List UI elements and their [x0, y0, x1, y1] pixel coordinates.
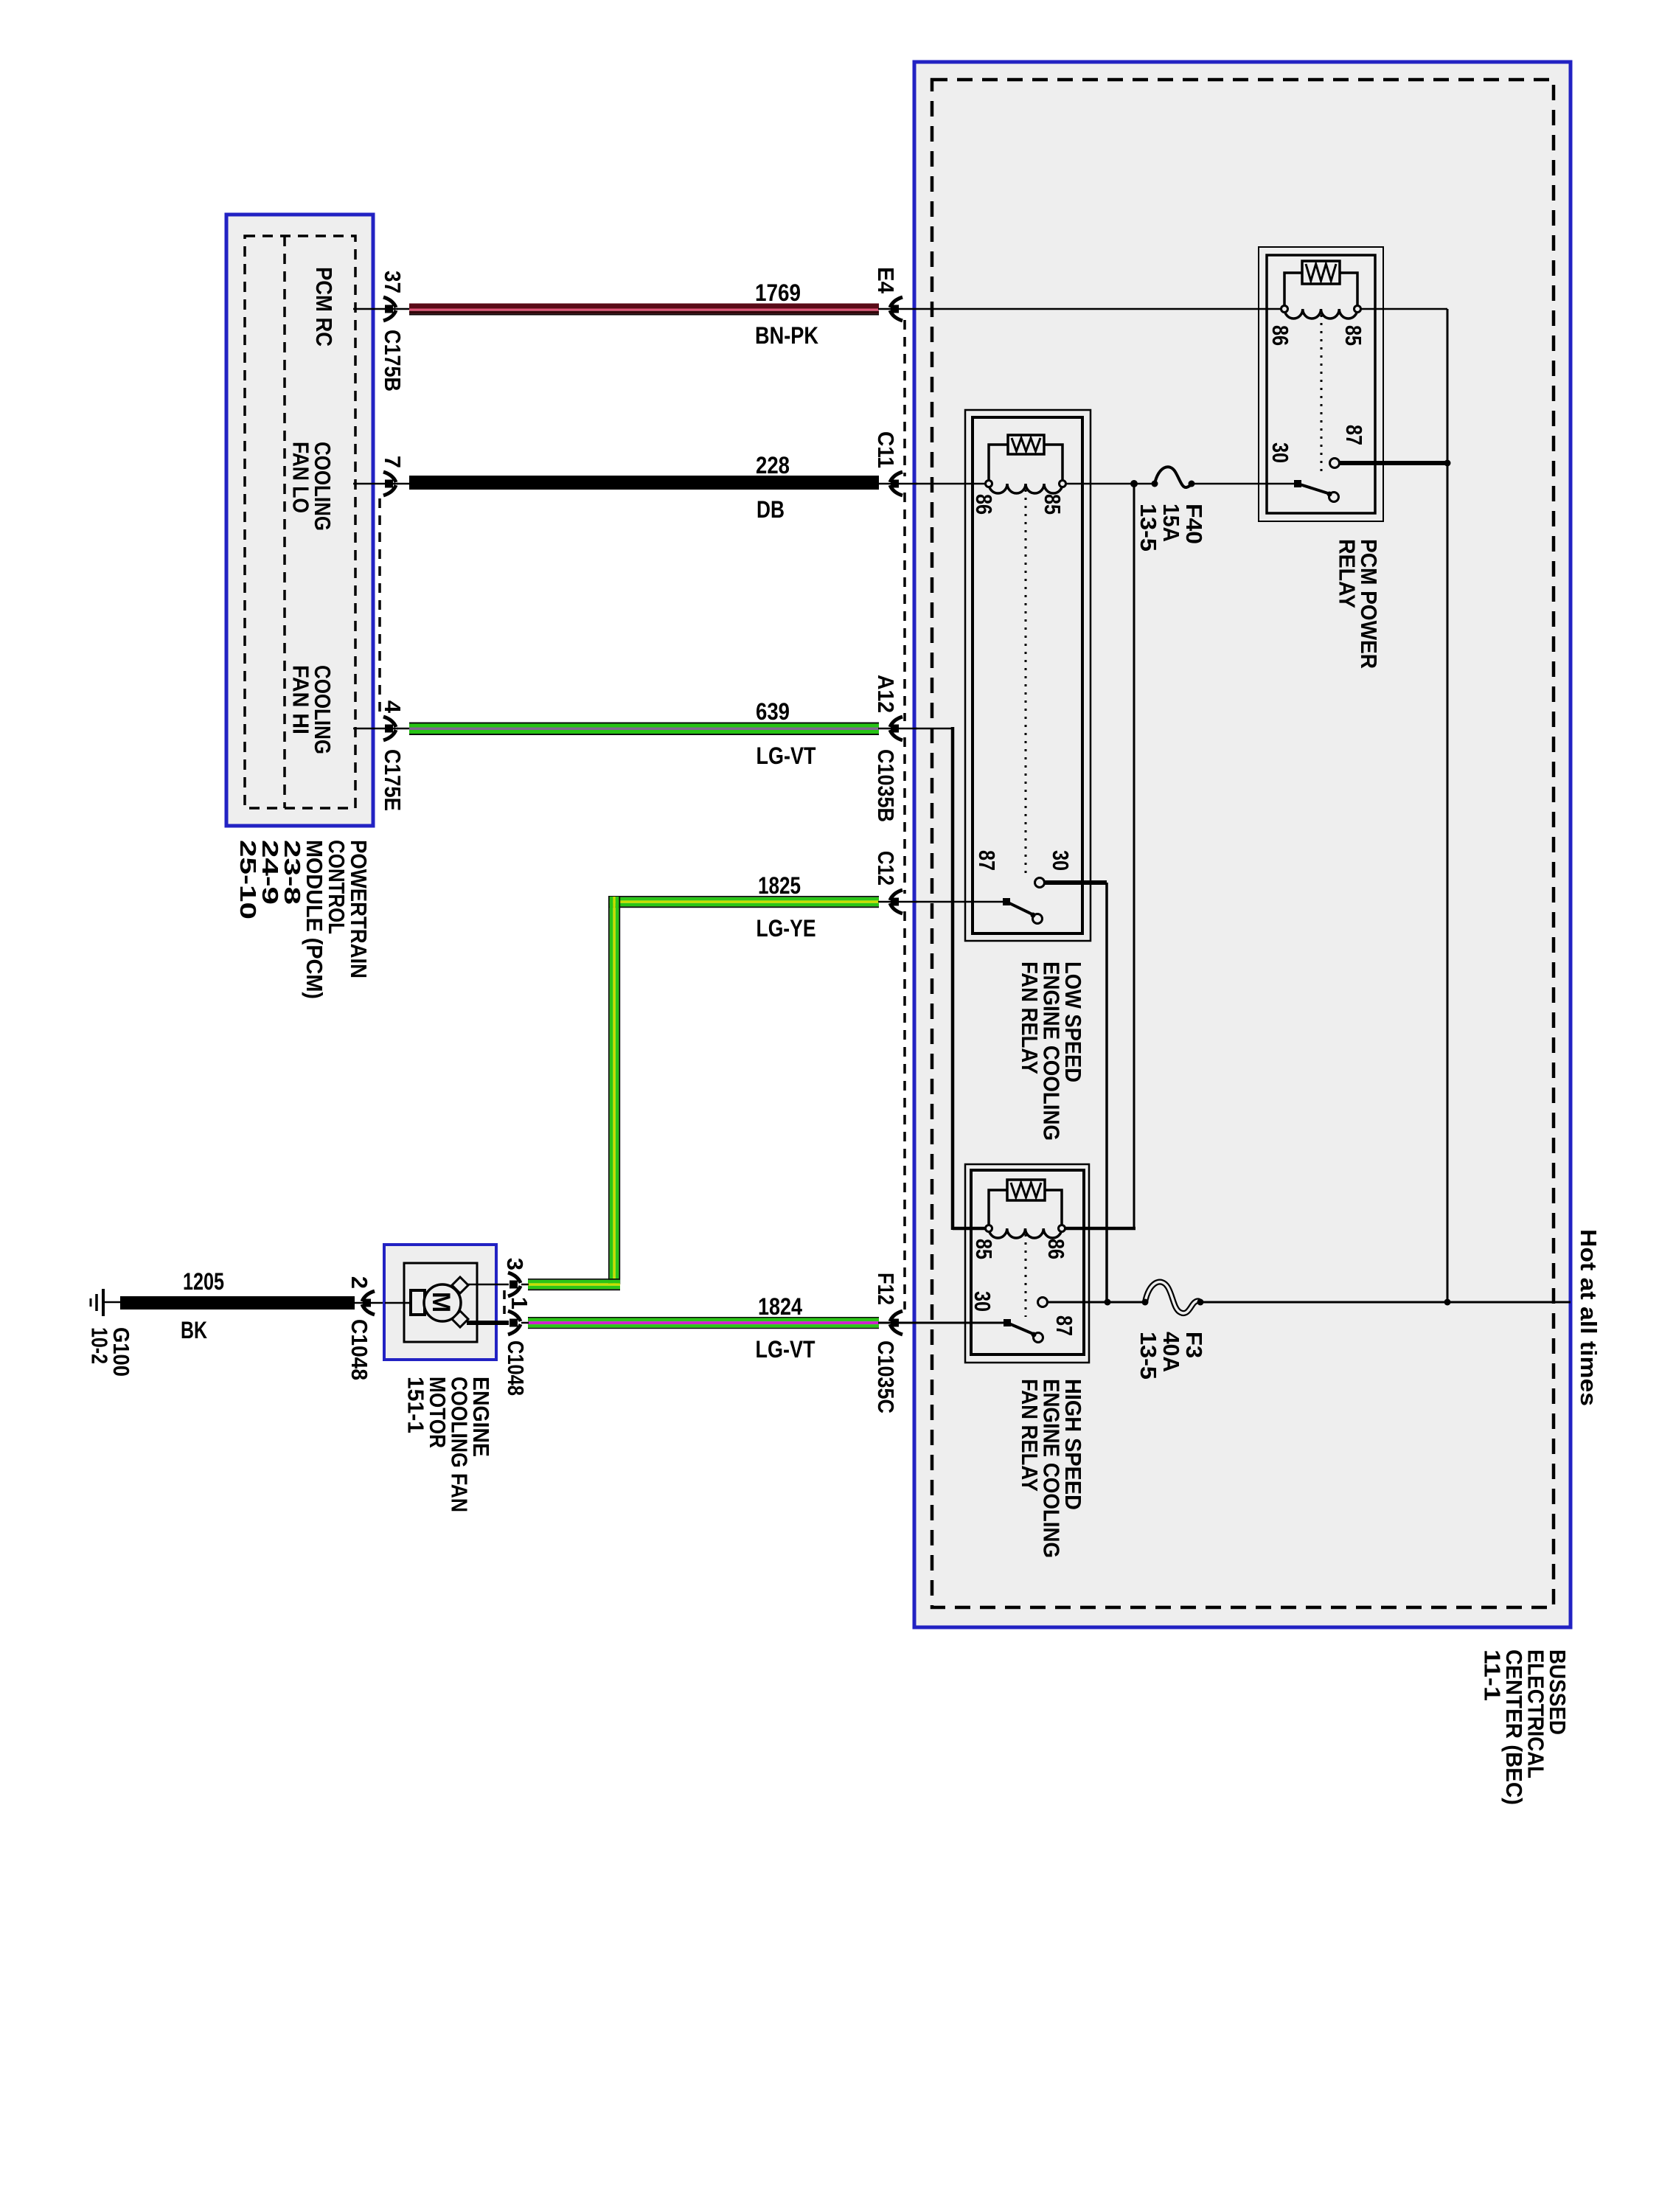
wire shaft into F12 [878, 1322, 917, 1324]
svg-text:F12: F12 [873, 1273, 899, 1305]
pin label 3 [502, 1258, 528, 1270]
connector pin 4 [383, 717, 396, 740]
HS relay resistor stubs [989, 1190, 1062, 1228]
pin label 37 [380, 271, 406, 293]
PCM power relay box [1259, 247, 1383, 521]
svg-text:LG-VT: LG-VT [756, 1336, 815, 1363]
svg-text:85: 85 [1040, 494, 1065, 515]
wire 1205 BK [120, 1296, 355, 1310]
ground G100 [91, 1289, 103, 1316]
label HIGH SPEED ENGINE COOLING FAN RELAY [1017, 1379, 1086, 1558]
wire C11 to LS coil [916, 483, 989, 485]
svg-text:13-5: 13-5 [1135, 504, 1161, 552]
junction node F40 / HS-coil vertical [1130, 480, 1138, 487]
wire label LG-VT [757, 742, 816, 769]
svg-text:Hot at all times: Hot at all times [1576, 1229, 1601, 1406]
PCM relay resistor stubs [1284, 273, 1357, 309]
svg-text:30: 30 [970, 1291, 995, 1312]
HS relay switch arm [1004, 1319, 1043, 1343]
wire PCM relay 85 to right [1357, 308, 1447, 310]
svg-text:40A: 40A [1158, 1332, 1184, 1372]
pin label 1 [507, 1297, 532, 1310]
wire motor to pin 1 [467, 1321, 509, 1325]
wire PCM relay 87 output [1340, 461, 1447, 465]
svg-text:BN-PK: BN-PK [755, 322, 818, 349]
pin label A12 [873, 675, 899, 713]
svg-text:LG-VT: LG-VT [757, 742, 816, 769]
wire label 1769 [755, 279, 801, 306]
connector A12 [890, 717, 902, 740]
svg-text:1769: 1769 [755, 279, 801, 306]
svg-text:10-2: 10-2 [87, 1327, 113, 1364]
motor M1 circle [424, 1284, 461, 1321]
svg-text:E4: E4 [873, 267, 899, 294]
svg-text:FAN RELAY: FAN RELAY [1017, 961, 1043, 1074]
svg-text:7: 7 [380, 456, 406, 468]
label F40 15A 13-5 [1135, 504, 1207, 552]
label PCM RC [311, 267, 337, 347]
LS relay switch arm [1003, 898, 1043, 924]
svg-text:C1035C: C1035C [873, 1340, 899, 1413]
wire right vertical to hot bus [1447, 309, 1449, 1302]
wire HS coil line right [1062, 1227, 1135, 1231]
connector label C1035C [873, 1340, 899, 1413]
connector pin 2 [362, 1291, 375, 1315]
wire F12 to HS pivot [916, 1322, 1004, 1324]
svg-text:1825: 1825 [758, 872, 801, 899]
svg-text:C1035B: C1035B [873, 749, 899, 822]
wire 1825 LG-YE vertical [608, 897, 620, 1284]
connector pin 1 [508, 1311, 521, 1335]
wire F3 to hot at all times [1200, 1301, 1571, 1304]
svg-text:85: 85 [971, 1239, 997, 1259]
wire pin2 to brush [385, 1302, 411, 1304]
svg-text:FAN RELAY: FAN RELAY [1017, 1379, 1043, 1492]
pin label C12 [873, 851, 899, 886]
PCM relay pin 86 [1267, 325, 1293, 346]
junction node 87-output / vertical [1444, 460, 1451, 467]
connector C1048 dashed group line [503, 1290, 506, 1314]
svg-text:C12: C12 [873, 851, 899, 886]
svg-text:1: 1 [507, 1297, 532, 1310]
wire motor to pin 3 [467, 1284, 509, 1286]
connector C12 [890, 890, 902, 914]
wire label 1205 [183, 1268, 224, 1295]
svg-text:11-1: 11-1 [1480, 1649, 1506, 1701]
svg-text:86: 86 [1267, 325, 1293, 346]
label LOW SPEED ENGINE COOLING FAN RELAY [1017, 961, 1086, 1141]
PCM relay pin 87 [1341, 425, 1367, 445]
svg-text:1824: 1824 [758, 1293, 802, 1320]
label ENGINE COOLING FAN MOTOR 151-1 [403, 1377, 495, 1512]
svg-text:151-1: 151-1 [403, 1377, 429, 1433]
connector C1035B dashed line C11-A12 [903, 493, 906, 721]
wire label LG-YE [757, 915, 816, 942]
wire label LG-VT 1824 [756, 1336, 815, 1363]
connector C11 [890, 472, 902, 495]
HS relay resistor [1007, 1180, 1045, 1200]
HS relay actuator dotted line [1025, 1234, 1027, 1317]
ground label G100 10-2 [87, 1327, 135, 1377]
svg-text:639: 639 [756, 698, 790, 725]
wire F40 to PCM relay pivot [1192, 483, 1298, 485]
PCM relay coil [1281, 306, 1361, 319]
wire ground stub [103, 1301, 121, 1304]
wire E4 to PCM relay coil [916, 308, 1284, 310]
PCM inner dashed border [245, 236, 355, 808]
powertrain control module (PCM) box [226, 215, 373, 826]
svg-text:BK: BK [181, 1317, 207, 1343]
svg-text:F40: F40 [1181, 504, 1207, 544]
wire shaft after pin 7 [397, 483, 410, 485]
motor terminal tab upper [452, 1277, 468, 1293]
PCM relay contact 87 [1330, 459, 1340, 468]
junction node hot bus / right vertical [1444, 1299, 1451, 1306]
svg-text:C175B: C175B [380, 330, 406, 392]
wire shaft into C12 [878, 901, 917, 903]
wire C12 to LS pivot [916, 901, 1003, 903]
wire 228 DB [409, 476, 879, 490]
svg-text:FAN HI: FAN HI [288, 665, 314, 734]
svg-text:C11: C11 [873, 431, 899, 468]
connector label C175E [380, 749, 406, 811]
pin label C11 [873, 431, 899, 468]
connector pin 7 [383, 472, 396, 495]
svg-text:15A: 15A [1158, 504, 1184, 542]
svg-text:30: 30 [1267, 442, 1293, 463]
svg-text:228: 228 [756, 452, 790, 479]
wire 639 LG-VT [409, 723, 879, 736]
svg-text:87: 87 [1341, 425, 1367, 445]
svg-text:C1048: C1048 [503, 1340, 529, 1396]
svg-text:37: 37 [380, 271, 406, 293]
wire A12 to vertical [916, 728, 953, 730]
svg-text:4: 4 [380, 700, 406, 714]
LS relay pin 30 [1048, 850, 1074, 871]
wire 1769 BN-PK [409, 304, 879, 316]
connector F12 [890, 1311, 902, 1335]
motor terminal tab lower [452, 1311, 468, 1327]
wire shaft after pin 3 [521, 1284, 529, 1286]
HS relay pin 30 [970, 1291, 995, 1312]
svg-text:86: 86 [971, 494, 997, 515]
wire shaft into C11 [878, 483, 917, 485]
connector label C1035B [873, 749, 899, 822]
LS relay pin 86 [971, 494, 997, 515]
svg-text:DB: DB [757, 496, 785, 523]
wire shaft into pin 2 [354, 1302, 385, 1304]
label COOLING FAN HI [288, 665, 336, 754]
bussed electrical center (BEC) box [914, 62, 1571, 1627]
svg-text:30: 30 [1048, 850, 1074, 871]
LS relay pin 87 [974, 850, 1000, 871]
connector C1035B dashed line A12-C12 [903, 737, 906, 894]
connector label C1048 left [347, 1319, 372, 1380]
wire 1824 LG-VT [528, 1317, 879, 1329]
svg-text:A12: A12 [873, 675, 899, 713]
junction node LS30-vertical / F3 bus [1105, 1299, 1111, 1306]
BEC inner dashed border [932, 80, 1554, 1607]
LS relay resistor [1008, 435, 1044, 454]
LS relay contact 30 [1035, 878, 1045, 888]
label COOLING FAN LO [288, 442, 336, 531]
connector pin 37 [383, 297, 396, 321]
HS relay pin 85 [971, 1239, 997, 1259]
LS relay resistor stubs [989, 445, 1062, 484]
motor brush [411, 1290, 425, 1315]
label Hot at all times [1576, 1229, 1601, 1406]
pin label 4 [380, 700, 406, 714]
wire HS 87 to F3 [1048, 1301, 1147, 1304]
svg-text:M: M [427, 1292, 455, 1312]
wire LS 30 output [1045, 880, 1107, 885]
svg-text:86: 86 [1043, 1239, 1069, 1259]
svg-text:PCM RC: PCM RC [311, 267, 337, 347]
label BUSSED ELECTRICAL CENTER (BEC) 11-1 [1480, 1649, 1571, 1805]
pin label E4 [873, 267, 899, 294]
label F3 40A 13-5 [1135, 1332, 1207, 1380]
LS relay coil [986, 481, 1066, 494]
wire 1825 LG-YE horizontal [608, 896, 879, 908]
wire shaft into E4 [878, 308, 916, 310]
pin label 7 [380, 456, 406, 468]
svg-text:C1048: C1048 [347, 1319, 372, 1380]
svg-text:13-5: 13-5 [1135, 1332, 1161, 1380]
svg-text:2: 2 [347, 1276, 372, 1289]
wire LS 30 vertical to F3 bus [1105, 883, 1108, 1302]
wire label 228 [756, 452, 790, 479]
wire A12 vertical down [951, 727, 955, 1230]
svg-text:FAN LO: FAN LO [288, 442, 314, 513]
pin label 2 [347, 1276, 372, 1289]
PCM relay pin 30 [1267, 442, 1293, 463]
label POWERTRAIN CONTROL MODULE (PCM) 23-8 24-9 25-10 [235, 840, 372, 999]
svg-text:85: 85 [1340, 325, 1366, 346]
wire label 639 [756, 698, 790, 725]
wire shaft into A12 [878, 728, 917, 730]
wire label 1825 [758, 872, 801, 899]
wire HS coil line left [953, 1227, 989, 1231]
svg-text:3: 3 [502, 1258, 528, 1270]
pin label F12 [873, 1273, 899, 1305]
svg-text:LG-YE: LG-YE [757, 915, 816, 942]
PCM relay pin 85 [1340, 325, 1366, 346]
PCM inner dashed divider [283, 236, 286, 808]
connector E4 [890, 297, 902, 321]
motor inner box [404, 1263, 477, 1342]
svg-text:25-10: 25-10 [235, 840, 261, 919]
wire pin 37 stub [353, 308, 398, 310]
engine cooling fan motor box [384, 1245, 496, 1360]
fuse F40 15A [1152, 467, 1195, 487]
HS relay contact 87 [1038, 1298, 1048, 1307]
PCM relay switch arm [1294, 480, 1339, 502]
connector pin 3 [508, 1273, 521, 1296]
label PCM POWER RELAY [1335, 539, 1382, 669]
HS relay pin 86 [1043, 1239, 1069, 1259]
HS relay coil [986, 1225, 1065, 1239]
wire shaft after pin 37 [397, 308, 410, 310]
wire pin 4 stub [353, 728, 398, 730]
svg-text:RELAY: RELAY [1335, 539, 1360, 608]
wire label DB [757, 496, 785, 523]
wire label BK [181, 1317, 207, 1343]
connector C175E dashed bracket [378, 498, 381, 717]
LS relay actuator dotted line [1025, 490, 1027, 877]
connector C1035 dashed line E4-C11 [903, 320, 906, 476]
high speed engine cooling fan relay box [965, 1164, 1089, 1363]
wire LS coil 85 to F40 [1062, 483, 1156, 485]
low speed engine cooling fan relay box [965, 410, 1091, 941]
wire label 1824 [758, 1293, 802, 1320]
svg-text:87: 87 [974, 850, 1000, 871]
fuse F3 40A [1142, 1282, 1204, 1314]
wire label BN-PK [755, 322, 818, 349]
svg-text:F3: F3 [1181, 1332, 1207, 1358]
svg-text:87: 87 [1051, 1315, 1077, 1336]
HS relay pin 87 [1051, 1315, 1077, 1336]
wire shaft after pin 1 [521, 1322, 529, 1324]
wire pin 7 stub [353, 483, 398, 485]
PCM relay resistor [1302, 261, 1340, 284]
wire 1825 LG-YE lower horizontal [528, 1279, 620, 1290]
LS relay pin 85 [1040, 494, 1065, 515]
wire shaft after pin 4 [397, 728, 410, 730]
connector label C175B [380, 330, 406, 392]
svg-text:C175E: C175E [380, 749, 406, 811]
PCM relay actuator dotted line [1321, 315, 1323, 472]
svg-text:1205: 1205 [183, 1268, 224, 1295]
connector label C1048 right [503, 1340, 529, 1396]
connector C1035C dashed line C12-F12 [903, 911, 906, 1310]
wire F40 vertical down to HS coil [1133, 484, 1135, 1227]
